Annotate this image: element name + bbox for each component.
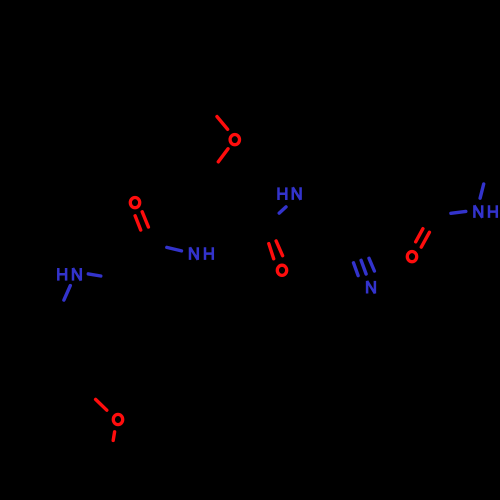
wire N2 bond half to C7a	[64, 286, 70, 301]
wire O2 double bond half line 2	[142, 212, 148, 227]
wire O2 double bond half line 1	[135, 216, 141, 230]
wire O5 double bond half line 2	[421, 232, 429, 247]
indole N2 label HN	[58, 268, 81, 281]
wire O3 bond half to ring carbon	[96, 399, 107, 410]
wire N5 bond half to carbonyl carbon	[451, 211, 466, 213]
wire O4 double bond half line 1	[269, 244, 274, 259]
nitrile N4 label	[367, 281, 375, 294]
carbonyl O5 label (right C=O)	[407, 252, 416, 262]
wire O4 double bond half line 2	[276, 241, 283, 256]
wire N5 bond half to methyl	[480, 184, 484, 198]
wire N4 triple bond half line 1	[354, 263, 359, 276]
wire N3 bond half to carbonyl carbon	[279, 207, 286, 213]
wire O1 upper bond half	[217, 117, 228, 130]
carbonyl O2 label (left amide C=O)	[130, 198, 139, 208]
wire N1 bond half to carbonyl carbon	[167, 247, 182, 251]
amide N1 label NH (left)	[190, 247, 213, 260]
wire N4 triple bond half line 2	[361, 260, 366, 274]
furan O1 label	[230, 135, 239, 145]
wire N2 bond half to C2	[88, 274, 101, 276]
methoxy O3 label	[113, 414, 122, 424]
carbonyl O4 label (center C=O)	[277, 265, 286, 275]
wire O1 lower bond half	[218, 149, 228, 162]
amide N5 label NH (right)	[474, 205, 496, 218]
wire N4 triple bond half line 3	[369, 258, 374, 271]
wire O3 bond half to methyl	[113, 432, 114, 441]
amide N3 label HN (center)	[279, 187, 301, 200]
wire O5 double bond half line 1	[416, 229, 423, 242]
